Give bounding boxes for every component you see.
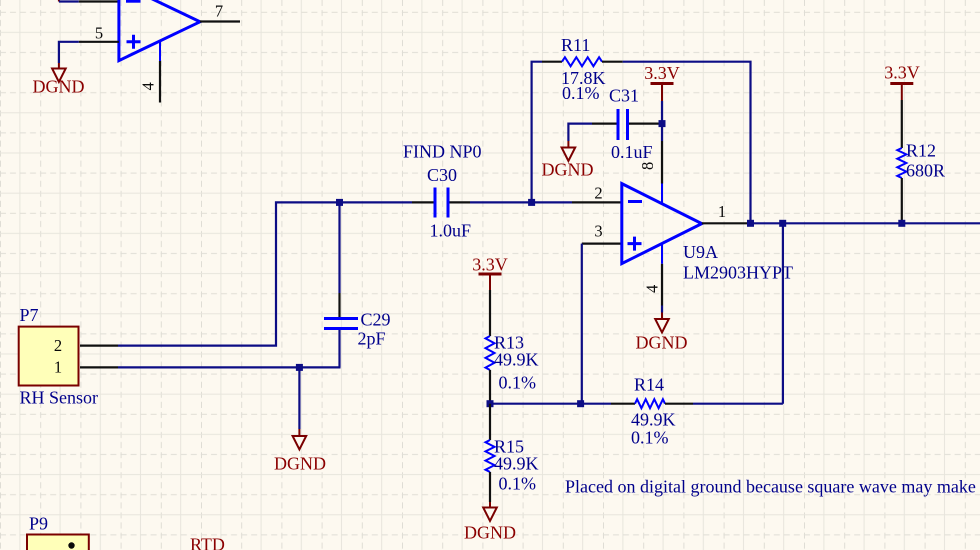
svg-text:LM2903HYPT: LM2903HYPT (683, 263, 793, 283)
svg-text:0.1%: 0.1% (499, 474, 537, 494)
wire C29 branch upper (338, 202, 340, 293)
svg-text:P7: P7 (20, 305, 39, 325)
svg-text:DGND: DGND (542, 160, 594, 180)
svg-text:0.1%: 0.1% (562, 83, 600, 103)
connector P9 (partial) (27, 535, 89, 550)
wire R14 right to riser (693, 403, 783, 405)
wire feedback left riser (532, 62, 542, 203)
pin of R15 bottom (489, 472, 491, 502)
svg-text:7: 7 (215, 2, 223, 21)
svg-text:DGND: DGND (33, 77, 85, 97)
svg-text:DGND: DGND (464, 523, 516, 543)
pin 3 of U9A (582, 243, 622, 245)
wire P7 pin2 up to main node (118, 202, 412, 345)
wire C30 right to pin2 (470, 201, 572, 203)
pin 2 of P7 (80, 345, 118, 347)
pin of R11 left (542, 61, 562, 63)
pin of R14 right (665, 403, 693, 405)
svg-text:R11: R11 (561, 35, 590, 55)
ground DGND (top-left) (52, 63, 66, 82)
svg-text:4: 4 (139, 82, 158, 90)
pin 5 of U9B (79, 41, 119, 43)
junction C31 right (659, 120, 666, 127)
ground DGND at C31 (562, 141, 576, 161)
pin of R12 top (901, 100, 903, 148)
op-amp U9B (partial) (119, 0, 200, 61)
junction divider node (487, 400, 494, 407)
wire P7 pin1 row (118, 366, 341, 368)
capacitor C30 (435, 188, 448, 218)
svg-text:R12: R12 (906, 141, 936, 161)
svg-text:49.9K: 49.9K (494, 454, 539, 474)
svg-text:R14: R14 (634, 375, 664, 395)
resistor R15 (486, 440, 495, 472)
pin dot in P9 (68, 542, 74, 548)
svg-text:4: 4 (643, 285, 662, 293)
junction feedback at main node (528, 199, 535, 206)
wire C31 left to DGND (568, 124, 592, 141)
svg-text:2: 2 (594, 184, 602, 203)
svg-text:3.3V: 3.3V (472, 255, 508, 275)
junction R12 at output row (898, 220, 905, 227)
svg-text:Placed on digital ground becau: Placed on digital ground because square … (565, 477, 976, 497)
svg-text:P9: P9 (29, 514, 48, 534)
pin of C30 left (412, 201, 434, 203)
svg-text:0.1uF: 0.1uF (611, 142, 653, 162)
junction output R14 riser (779, 220, 786, 227)
svg-text:8: 8 (638, 162, 657, 170)
wire C29 bottom (338, 330, 340, 367)
wire feedback top and right riser (623, 62, 751, 224)
junction pin3 riser at node row (577, 400, 584, 407)
resistor R11 (562, 57, 602, 66)
pin 1 of P7 (80, 366, 118, 368)
svg-text:DGND: DGND (636, 333, 688, 353)
svg-text:U9A: U9A (683, 242, 718, 262)
wire pin6 stub of U9B (59, 0, 79, 2)
svg-text:C30: C30 (427, 165, 457, 185)
svg-text:3.3V: 3.3V (644, 63, 680, 83)
resistor R12 (897, 148, 906, 178)
power 3.3V symbol at R12 (890, 84, 913, 101)
svg-text:RTD: RTD (190, 535, 225, 550)
svg-text:1.0uF: 1.0uF (430, 221, 472, 241)
svg-text:2: 2 (54, 336, 62, 355)
svg-text:0.1%: 0.1% (631, 428, 669, 448)
wire 3.3V to C31 junction (661, 101, 663, 141)
svg-text:49.9K: 49.9K (494, 350, 539, 370)
junction main node at C29 (336, 199, 343, 206)
op-amp U9A (622, 184, 702, 264)
wire R14 riser (782, 223, 784, 403)
pin of R13 bottom (489, 370, 491, 404)
pin 2 of U9A (572, 201, 622, 203)
svg-text:DGND: DGND (274, 454, 326, 474)
pin 4 of U9A (661, 244, 663, 313)
svg-text:C31: C31 (609, 86, 639, 106)
svg-text:1: 1 (718, 202, 726, 221)
pin of C30 right (450, 201, 471, 203)
pin of C31 right (629, 122, 662, 124)
capacitor C31 (618, 109, 628, 140)
wire pin5 to DGND (59, 42, 79, 63)
pin 4 of U9B (159, 41, 161, 102)
ground DGND at pin1 row (293, 429, 307, 449)
svg-text:C29: C29 (361, 310, 391, 330)
pin of R12 bottom (901, 178, 903, 223)
pin of R14 left (611, 403, 635, 405)
wire divider node row (490, 403, 611, 405)
svg-text:49.9K: 49.9K (631, 410, 676, 430)
pin 1 of U9A (702, 222, 749, 224)
junction pin1 row (296, 364, 303, 371)
svg-text:2pF: 2pF (358, 329, 386, 349)
pin of C31 left (592, 122, 617, 124)
power 3.3V symbol at C31 (651, 84, 674, 102)
wire pin3 riser down (581, 244, 583, 404)
pin of R13 top (489, 290, 491, 336)
resistor R13 (486, 336, 495, 370)
svg-text:3: 3 (594, 222, 602, 241)
svg-text:FIND NP0: FIND NP0 (403, 142, 482, 162)
pin 6 of U9B (79, 0, 119, 2)
pin of R15 top (489, 404, 491, 440)
connector P7 (19, 327, 79, 386)
pin 8 of U9A (661, 141, 663, 204)
svg-text:680R: 680R (906, 161, 945, 181)
resistor R14 (635, 399, 665, 408)
capacitor C29 (324, 319, 358, 329)
svg-text:3.3V: 3.3V (884, 63, 920, 83)
pin of R11 right (602, 61, 623, 63)
svg-text:RH Sensor: RH Sensor (20, 388, 99, 408)
wire DGND drop on pin1 row (298, 367, 300, 429)
svg-text:0.1%: 0.1% (499, 373, 537, 393)
ground DGND at R15 (483, 502, 497, 521)
pin 7 of U9B (200, 20, 240, 22)
pin of C29 top (338, 293, 340, 317)
svg-text:1: 1 (54, 358, 62, 377)
power 3.3V symbol at R13 (479, 274, 502, 290)
wire output row (749, 222, 980, 224)
junction output feedback (747, 220, 754, 227)
ground DGND at U9A pin4 (655, 313, 669, 333)
svg-text:5: 5 (95, 24, 103, 43)
